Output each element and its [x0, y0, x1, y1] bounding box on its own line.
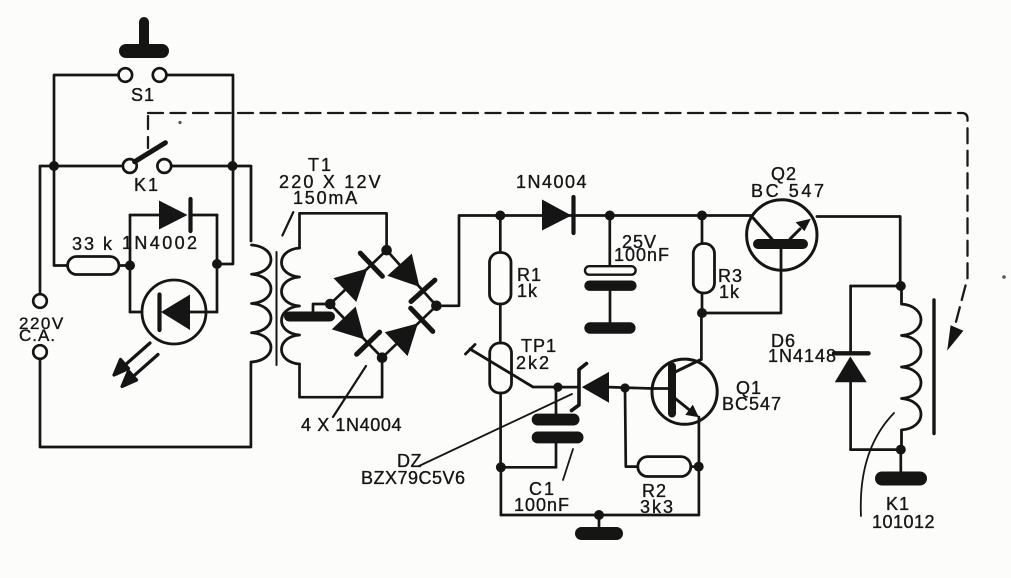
svg-text:101012: 101012	[872, 512, 935, 532]
resistor 33k	[68, 257, 119, 275]
label pointer K1 relay	[861, 413, 894, 516]
wire left vertical to 33k	[54, 166, 68, 266]
svg-text:1N4004: 1N4004	[516, 172, 588, 192]
node rail R1	[495, 211, 505, 221]
wire Q2 emitter to relay	[817, 217, 900, 287]
wire bridge right to rail	[436, 216, 753, 306]
node relay top	[896, 281, 906, 291]
node zener left	[553, 383, 562, 392]
wire bottom left	[40, 359, 251, 447]
wire R3 to Q2 base	[702, 249, 781, 313]
svg-text:1k: 1k	[719, 282, 740, 302]
ground mid	[575, 515, 623, 540]
diode 1N4004	[542, 197, 574, 233]
svg-text:100nF: 100nF	[514, 495, 570, 515]
resistor R1	[490, 216, 512, 344]
terminal 220V top	[33, 294, 47, 308]
label pointer 4x1N4004	[333, 366, 366, 417]
svg-text:100nF: 100nF	[614, 245, 670, 265]
svg-text:BC547: BC547	[722, 394, 782, 414]
wire secondary bottom to bridge bottom	[300, 358, 383, 398]
dashed arrowhead	[947, 325, 963, 350]
transformer T1 secondary winding	[282, 248, 300, 364]
LED light arrows	[114, 343, 158, 387]
svg-text:2k2: 2k2	[516, 353, 551, 373]
wire S1 right down	[166, 75, 233, 166]
svg-text:K1: K1	[134, 175, 160, 195]
relay armature bar	[932, 300, 935, 434]
ground below capacitor	[584, 322, 635, 333]
label pointer DZ	[419, 394, 572, 466]
node branch right	[212, 259, 222, 269]
node K1 left	[49, 161, 59, 171]
node Q1 base	[620, 383, 629, 392]
wire branch link to K1 right	[217, 166, 233, 264]
svg-text:1N4148: 1N4148	[768, 346, 837, 366]
wire branch left vertical	[129, 215, 132, 312]
LED	[130, 280, 217, 344]
bridge thick bar to secondary	[289, 312, 330, 322]
trimpot TP1	[466, 343, 559, 467]
wire S1 left to left rail	[54, 75, 119, 166]
switch contact K1	[54, 143, 233, 173]
ink speck	[178, 121, 181, 124]
bridge diode upper-right	[387, 254, 419, 287]
label pointer C1	[563, 449, 573, 480]
bridge diode lower-right	[385, 323, 418, 356]
node R3 bottom	[697, 308, 707, 318]
ground relay	[875, 450, 927, 486]
terminal 220V bottom	[33, 345, 47, 359]
svg-text:K1: K1	[886, 494, 910, 514]
wire jog to AC terminal	[40, 166, 54, 294]
node rail cap	[605, 211, 615, 221]
diode D6	[834, 286, 901, 450]
capacitor C1	[501, 387, 584, 467]
wire Q1 emitter down	[698, 417, 701, 515]
pushbutton S1	[119, 22, 167, 82]
node rail R3	[697, 211, 707, 221]
transformer core	[276, 252, 278, 365]
node branch left	[125, 261, 135, 271]
wire secondary top to bridge top	[300, 213, 387, 250]
svg-text:C.A.: C.A.	[19, 326, 56, 345]
capacitor 25V 100nF	[584, 216, 636, 323]
bridge diode upper-left	[334, 269, 368, 303]
transformer T1 primary winding	[233, 166, 272, 362]
node TP1 bottom	[496, 462, 506, 472]
svg-text:33 k: 33 k	[72, 234, 114, 254]
relay coil K1	[902, 286, 922, 450]
label pointer T1	[282, 212, 293, 235]
svg-text:1k: 1k	[517, 281, 538, 301]
node R2 right	[694, 462, 704, 472]
transistor Q1	[652, 359, 717, 424]
svg-text:150mA: 150mA	[293, 188, 359, 208]
svg-text:BC 547: BC 547	[751, 181, 827, 201]
bridge side wires	[330, 250, 436, 358]
wire branch right vertical	[216, 215, 219, 312]
bottom rail	[501, 514, 699, 517]
resistor R3	[693, 216, 714, 314]
dashed control line	[148, 113, 968, 337]
resistor R2	[625, 388, 699, 477]
diode 1N4002	[130, 199, 217, 231]
transistor Q2	[747, 200, 817, 270]
bridge corner nodes	[381, 245, 392, 256]
wire Q1 collector up	[700, 313, 703, 360]
node relay bottom	[896, 445, 906, 455]
ink speck right	[1002, 275, 1006, 279]
svg-text:4 X 1N4004: 4 X 1N4004	[301, 415, 402, 435]
svg-text:BZX79C5V6: BZX79C5V6	[361, 468, 466, 488]
bridge diode lower-left	[332, 307, 365, 340]
bridge jog at left corner	[313, 304, 330, 312]
node ground mid	[594, 510, 604, 520]
zener diode DZ	[558, 364, 652, 411]
node K1 right	[228, 161, 238, 171]
svg-text:1N4002: 1N4002	[122, 233, 199, 253]
svg-text:S1: S1	[131, 85, 155, 105]
